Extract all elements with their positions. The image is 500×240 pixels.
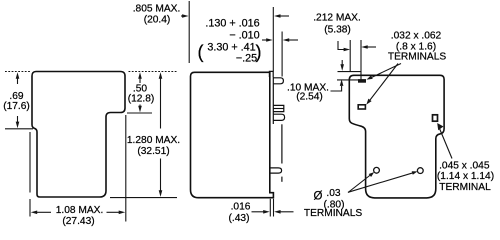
svg-text:Ø: Ø bbox=[314, 191, 323, 203]
svg-text:.045 x .045: .045 x .045 bbox=[439, 160, 490, 171]
svg-text:(32.51): (32.51) bbox=[137, 146, 169, 157]
svg-text:.032 x .062: .032 x .062 bbox=[391, 31, 442, 42]
svg-text:(27.43): (27.43) bbox=[62, 216, 94, 227]
svg-text:−.25: −.25 bbox=[236, 53, 257, 65]
svg-text:− .010: − .010 bbox=[229, 30, 259, 42]
svg-text:(: ( bbox=[198, 42, 204, 62]
svg-text:(.43): (.43) bbox=[229, 213, 250, 224]
svg-text:TERMINALS: TERMINALS bbox=[388, 52, 447, 63]
svg-text:.805 MAX.: .805 MAX. bbox=[133, 4, 181, 15]
svg-text:(1.14 x 1.14): (1.14 x 1.14) bbox=[437, 171, 494, 182]
svg-text:(17.6): (17.6) bbox=[3, 101, 30, 112]
svg-text:1.280 MAX.: 1.280 MAX. bbox=[127, 135, 180, 146]
svg-text:): ) bbox=[256, 42, 262, 62]
svg-text:(12.8): (12.8) bbox=[128, 94, 155, 105]
svg-text:(5.38): (5.38) bbox=[324, 25, 351, 36]
svg-text:1.08 MAX.: 1.08 MAX. bbox=[56, 205, 104, 216]
svg-text:.212 MAX.: .212 MAX. bbox=[313, 13, 361, 24]
svg-text:(20.4): (20.4) bbox=[144, 15, 171, 26]
svg-text:TERMINALS: TERMINALS bbox=[304, 208, 363, 219]
svg-text:.130 + .016: .130 + .016 bbox=[205, 18, 259, 30]
svg-text:.016: .016 bbox=[231, 202, 251, 213]
svg-text:(2.54): (2.54) bbox=[296, 92, 323, 103]
svg-text:TERMINAL: TERMINAL bbox=[439, 182, 491, 193]
svg-text:.03: .03 bbox=[326, 188, 340, 199]
